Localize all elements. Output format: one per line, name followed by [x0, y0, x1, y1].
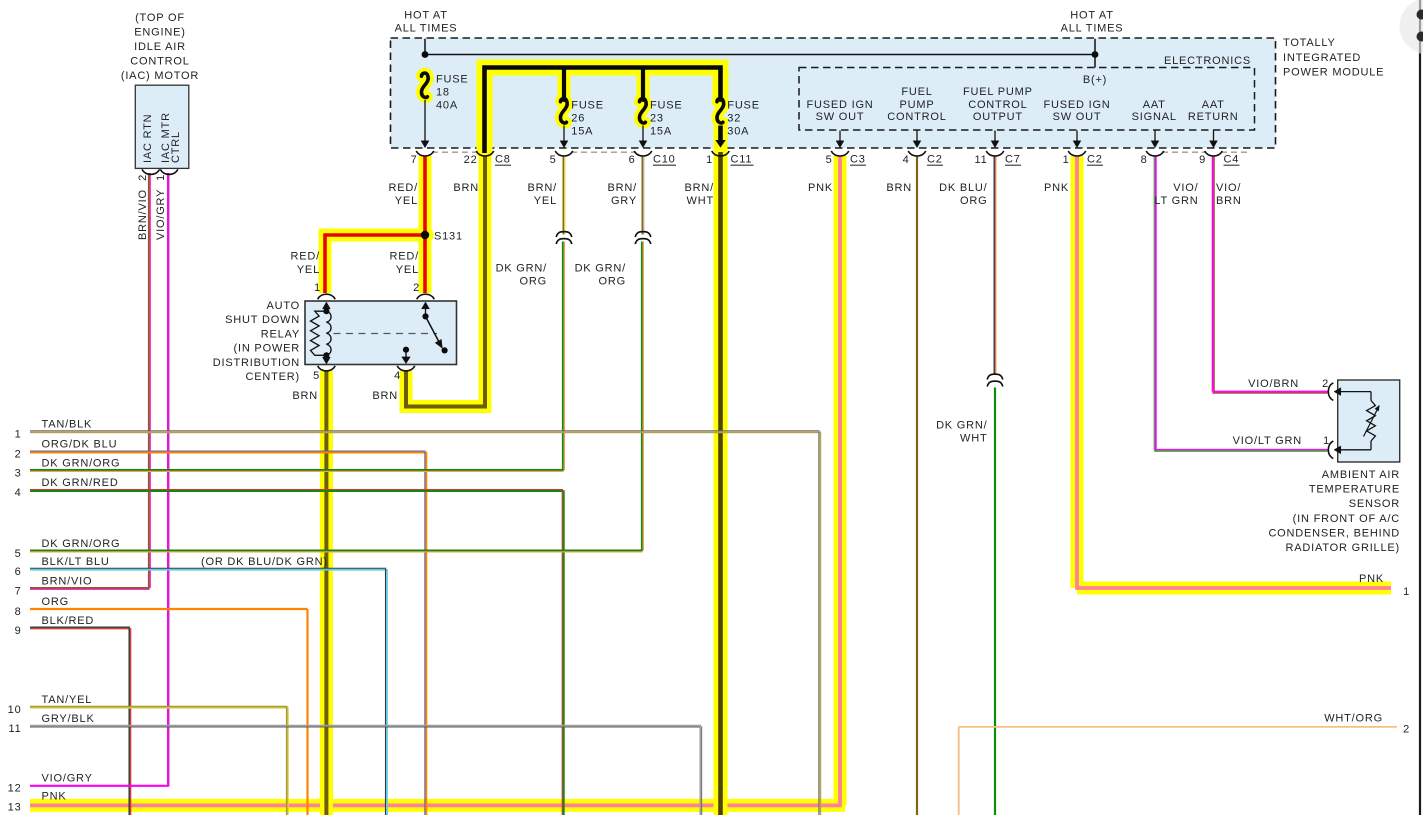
svg-text:DK GRN/ORG: DK GRN/ORG — [42, 538, 121, 550]
svg-text:ORG/DK BLU: ORG/DK BLU — [42, 439, 118, 451]
wire WHT/ORG right area — [959, 727, 1397, 815]
svg-text:1: 1 — [706, 154, 713, 166]
svg-text:AMBIENT AIR: AMBIENT AIR — [1322, 469, 1400, 481]
svg-text:RELAY: RELAY — [261, 328, 300, 340]
svg-text:CONTROL: CONTROL — [130, 56, 189, 68]
svg-text:TEMPERATURE: TEMPERATURE — [1309, 484, 1400, 496]
junction — [422, 51, 429, 58]
svg-text:ORG: ORG — [42, 596, 69, 608]
relay switch blade — [426, 316, 440, 343]
wire BRN/YEL fuse26 to break — [562, 156, 564, 235]
IAC pin1 arc — [160, 169, 178, 174]
svg-text:FUSE: FUSE — [650, 99, 683, 111]
svg-text:SENSOR: SENSOR — [1349, 498, 1400, 510]
wire VIO/LT GRN pin8 to AAT pin1 — [1153, 156, 1155, 450]
svg-text:7: 7 — [411, 154, 418, 166]
svg-text:OUTPUT: OUTPUT — [973, 111, 1023, 123]
svg-text:BRN: BRN — [292, 390, 318, 402]
IAC pin2 arc — [142, 169, 160, 174]
splice S131 — [421, 231, 429, 239]
svg-text:18: 18 — [436, 87, 450, 99]
svg-text:TAN/BLK: TAN/BLK — [42, 418, 93, 430]
wire row 7 BRN/VIO — [30, 587, 150, 589]
svg-text:1: 1 — [1403, 586, 1410, 598]
svg-text:1: 1 — [155, 174, 167, 181]
svg-text:INTEGRATED: INTEGRATED — [1283, 52, 1361, 64]
svg-text:C10: C10 — [653, 154, 676, 166]
svg-text:CONDENSER, BEHIND: CONDENSER, BEHIND — [1268, 527, 1400, 539]
svg-text:SHUT DOWN: SHUT DOWN — [225, 314, 300, 326]
svg-text:VIO/: VIO/ — [1173, 182, 1198, 194]
svg-text:VIO/GRY: VIO/GRY — [42, 773, 93, 785]
fuse F26 15A — [560, 99, 567, 123]
svg-text:VIO/: VIO/ — [1216, 182, 1241, 194]
svg-text:9: 9 — [15, 625, 22, 637]
svg-text:5: 5 — [313, 370, 320, 382]
svg-text:YEL: YEL — [395, 195, 418, 207]
svg-text:BRN: BRN — [372, 390, 398, 402]
svg-text:2: 2 — [15, 449, 22, 461]
svg-text:(IAC) MOTOR: (IAC) MOTOR — [121, 70, 199, 82]
svg-text:FUSED IGN: FUSED IGN — [806, 99, 873, 111]
svg-text:VIO/LT GRN: VIO/LT GRN — [1233, 435, 1302, 447]
electronics output arrow — [839, 131, 841, 145]
svg-text:LT GRN: LT GRN — [1154, 195, 1198, 207]
svg-text:11: 11 — [974, 154, 987, 166]
svg-text:ORG: ORG — [520, 276, 547, 288]
svg-text:TOTALLY: TOTALLY — [1283, 37, 1336, 49]
svg-text:PNK: PNK — [1359, 573, 1384, 585]
svg-text:BRN/VIO: BRN/VIO — [137, 189, 149, 240]
svg-text:RADIATOR GRILLE): RADIATOR GRILLE) — [1286, 542, 1400, 554]
svg-text:FUSE: FUSE — [436, 73, 469, 85]
svg-text:8: 8 — [15, 606, 22, 618]
svg-text:40A: 40A — [436, 100, 458, 112]
svg-text:HOT AT: HOT AT — [404, 10, 448, 22]
wire BRN/GRY fuse23 to break — [641, 156, 643, 235]
svg-text:AAT: AAT — [1202, 99, 1225, 111]
wire DK GRN/ORG break down to row3 — [562, 242, 564, 471]
pin 22 arc — [476, 151, 494, 156]
svg-text:FUEL: FUEL — [901, 86, 932, 98]
wire row 1 TAN/BLK — [30, 430, 820, 432]
electronics output arrow — [1154, 131, 1156, 145]
relay coil resistor zigzag — [311, 311, 327, 355]
wire BRN relay pin5 over row13 — [320, 790, 333, 815]
fuse F23 15A — [639, 99, 646, 123]
svg-text:8: 8 — [1141, 154, 1148, 166]
wire VIO/GRY IAC pin1 down to row12 — [167, 173, 169, 786]
svg-text:C4: C4 — [1224, 154, 1240, 166]
svg-text:10: 10 — [8, 704, 22, 716]
svg-text:DK GRN/: DK GRN/ — [936, 420, 988, 432]
svg-text:4: 4 — [394, 370, 401, 382]
svg-text:ALL TIMES: ALL TIMES — [395, 23, 458, 35]
svg-text:YEL: YEL — [534, 195, 557, 207]
relay coil bottom arrow — [325, 355, 327, 360]
svg-text:CONTROL: CONTROL — [968, 99, 1027, 111]
page right border — [1419, 0, 1421, 815]
svg-text:GRY/BLK: GRY/BLK — [42, 713, 95, 725]
svg-text:FUSE: FUSE — [727, 99, 760, 111]
svg-text:HOT AT: HOT AT — [1070, 10, 1114, 22]
pin 6 arc — [634, 151, 652, 156]
svg-text:DK GRN/: DK GRN/ — [575, 263, 627, 275]
pin 5 arc — [555, 151, 573, 156]
svg-text:DK GRN/RED: DK GRN/RED — [42, 477, 119, 489]
fuse23 output arrow — [642, 126, 644, 145]
svg-text:RED/: RED/ — [291, 251, 321, 263]
svg-text:FUEL PUMP: FUEL PUMP — [963, 86, 1033, 98]
svg-text:C8: C8 — [495, 154, 511, 166]
wire row 2 ORG/DK BLU — [30, 450, 426, 452]
svg-text:PNK: PNK — [808, 182, 833, 194]
relay coil top arrow — [325, 306, 327, 312]
pin 1 arc — [1068, 151, 1086, 156]
svg-text:1: 1 — [1063, 154, 1070, 166]
electronics output arrow — [994, 131, 996, 145]
pin 1 arc — [712, 151, 730, 156]
svg-text:30A: 30A — [727, 126, 749, 138]
pin 9 arc — [1205, 151, 1223, 156]
svg-text:PNK: PNK — [1044, 182, 1069, 194]
svg-text:BRN: BRN — [1216, 195, 1242, 207]
svg-text:WHT/ORG: WHT/ORG — [1324, 713, 1383, 725]
svg-text:ORG: ORG — [599, 276, 626, 288]
svg-text:BLK/LT BLU: BLK/LT BLU — [42, 556, 110, 568]
fuse26 output arrow — [563, 126, 565, 145]
svg-text:ELECTRONICS: ELECTRONICS — [1164, 55, 1251, 67]
relay contact — [442, 347, 448, 353]
svg-text:GRY: GRY — [611, 195, 637, 207]
svg-text:C7: C7 — [1005, 154, 1021, 166]
svg-text:3: 3 — [15, 468, 22, 480]
svg-text:BRN/: BRN/ — [528, 182, 558, 194]
svg-text:15A: 15A — [571, 126, 593, 138]
wire row 3 DK GRN/ORG — [30, 469, 564, 471]
svg-text:2: 2 — [137, 174, 149, 181]
AAT pin1 arc — [1328, 441, 1333, 459]
svg-text:AAT: AAT — [1143, 99, 1166, 111]
svg-text:POWER MODULE: POWER MODULE — [1283, 67, 1384, 79]
AAT thermistor — [1370, 392, 1372, 401]
fuse32 output thick — [718, 126, 723, 141]
svg-text:DK BLU/: DK BLU/ — [939, 182, 988, 194]
IAC motor box — [135, 85, 189, 168]
wire highlight halos — [485, 68, 721, 157]
thick fused bus — [485, 68, 721, 154]
wire BRN/VIO IAC pin2 down to row7 — [148, 173, 150, 588]
wire DK GRN/ORG break down to row5 — [641, 242, 643, 551]
svg-text:(IN POWER: (IN POWER — [234, 343, 300, 355]
wire BRN relay pin5 down — [324, 371, 328, 815]
junction B+ — [1092, 51, 1099, 58]
svg-text:BRN: BRN — [886, 182, 912, 194]
svg-text:C2: C2 — [1087, 154, 1103, 166]
wire row 10 TAN/YEL — [30, 706, 288, 708]
connector C10 group dashed — [571, 151, 636, 153]
svg-text:WHT: WHT — [687, 195, 714, 207]
svg-text:5: 5 — [15, 548, 22, 560]
relay pin2 arc — [417, 294, 435, 299]
wire BRN/WHT over row13 — [714, 790, 728, 815]
svg-text:IDLE AIR: IDLE AIR — [134, 41, 186, 53]
svg-text:4: 4 — [903, 154, 910, 166]
svg-text:VIO/BRN: VIO/BRN — [1248, 378, 1299, 390]
svg-text:FUSED IGN: FUSED IGN — [1043, 99, 1110, 111]
svg-text:RED/: RED/ — [390, 251, 420, 263]
svg-text:RED/: RED/ — [389, 182, 419, 194]
svg-text:PUMP: PUMP — [900, 99, 935, 111]
wire row 6 BLK/LT BLU — [30, 567, 386, 569]
ambient air temperature sensor box — [1338, 380, 1400, 462]
svg-text:RETURN: RETURN — [1188, 111, 1239, 123]
wire row 11 GRY/BLK — [30, 725, 701, 727]
fuse F32 30A — [717, 99, 724, 123]
svg-text:CTRL: CTRL — [170, 131, 182, 163]
svg-text:6: 6 — [629, 154, 636, 166]
svg-text:2: 2 — [413, 282, 420, 294]
wire row 8 ORG — [30, 608, 308, 610]
svg-text:SW OUT: SW OUT — [1053, 111, 1102, 123]
TIPM totally integrated power module box — [391, 38, 1276, 148]
svg-text:C11: C11 — [731, 154, 753, 166]
svg-text:26: 26 — [571, 113, 585, 125]
svg-text:SIGNAL: SIGNAL — [1132, 111, 1177, 123]
svg-text:CENTER): CENTER) — [246, 371, 301, 383]
wire BRN C2-4 down — [916, 156, 918, 815]
electronics output arrow — [1213, 131, 1215, 145]
svg-text:5: 5 — [550, 154, 557, 166]
svg-text:C2: C2 — [927, 154, 943, 166]
pin 7 arc — [416, 151, 434, 156]
svg-text:13: 13 — [8, 802, 22, 814]
pin 8 arc — [1146, 151, 1164, 156]
svg-text:ALL TIMES: ALL TIMES — [1061, 23, 1124, 35]
ELECTRONICS inner box — [799, 68, 1255, 131]
wire row 4 DK GRN/RED — [30, 489, 563, 491]
electronics output arrow — [1076, 131, 1078, 145]
svg-text:(TOP OF: (TOP OF — [135, 12, 185, 24]
svg-text:YEL: YEL — [297, 264, 320, 276]
svg-text:BRN/: BRN/ — [608, 182, 638, 194]
relay switch pivot — [422, 313, 428, 319]
svg-text:1: 1 — [314, 282, 321, 294]
relay pin5 arc — [318, 366, 336, 371]
svg-text:2: 2 — [1403, 724, 1410, 736]
svg-text:VIO/GRY: VIO/GRY — [155, 189, 167, 240]
svg-text:B(+): B(+) — [1083, 74, 1107, 86]
floating button top right — [1400, 0, 1423, 54]
fuse18 output arrow — [424, 100, 426, 144]
svg-text:BLK/RED: BLK/RED — [42, 615, 95, 627]
relay coil bottom node — [323, 352, 329, 358]
wire VIO/BRN pin9-C4 to AAT pin2 — [1212, 156, 1214, 392]
svg-text:DK GRN/ORG: DK GRN/ORG — [42, 458, 121, 470]
svg-text:11: 11 — [8, 723, 21, 735]
pin 4 arc — [908, 151, 926, 156]
svg-text:6: 6 — [15, 566, 22, 578]
wire DK GRN/WHT break down — [994, 388, 996, 816]
svg-text:BRN/VIO: BRN/VIO — [42, 576, 93, 588]
svg-text:FUSE: FUSE — [571, 99, 604, 111]
svg-text:S131: S131 — [434, 231, 463, 243]
fuse F18 40A — [421, 73, 428, 97]
wire BRN C8-22 to relay pin4 — [406, 156, 485, 407]
svg-text:ORG: ORG — [960, 195, 987, 207]
relay dashed actuator line — [334, 333, 438, 335]
svg-text:5: 5 — [826, 154, 833, 166]
auto shut down relay box — [305, 301, 457, 365]
power bus hot at all times — [424, 39, 426, 55]
relay pin4 arc — [397, 366, 415, 371]
svg-text:9: 9 — [1199, 154, 1206, 166]
svg-text:32: 32 — [727, 113, 741, 125]
wire DK BLU/ORG C7-11 to break — [993, 156, 995, 374]
break in DK BLU/ORG wire — [987, 374, 1003, 379]
wire PNK C2-1 down and right — [1075, 156, 1391, 588]
relay pin1 arc — [318, 294, 336, 299]
wire BRN/WHT C11-1 down — [718, 152, 723, 815]
wire PNK C3-5 down to row13 — [30, 156, 842, 805]
svg-text:1: 1 — [15, 428, 22, 440]
svg-text:TAN/YEL: TAN/YEL — [42, 694, 93, 706]
svg-text:DK GRN/: DK GRN/ — [496, 263, 548, 275]
svg-text:BRN: BRN — [453, 182, 479, 194]
relay switch arrow — [425, 306, 427, 317]
relay pin4 node — [403, 347, 409, 353]
svg-text:4: 4 — [15, 487, 22, 499]
connector C8 group dashed — [432, 151, 478, 153]
svg-text:SW OUT: SW OUT — [816, 111, 865, 123]
AAT pin2 arc — [1328, 383, 1333, 401]
AAT pin1 arrow — [1338, 449, 1372, 451]
svg-text:C3: C3 — [850, 154, 866, 166]
connector C4 group dashed — [1162, 151, 1206, 153]
svg-text:1: 1 — [1323, 435, 1330, 447]
svg-text:IAC RTN: IAC RTN — [142, 114, 154, 163]
svg-text:BRN/: BRN/ — [685, 182, 715, 194]
break in BRN/GRY wire — [635, 232, 651, 237]
svg-text:22: 22 — [464, 154, 478, 166]
relay coil winding — [326, 311, 331, 355]
svg-text:(IN FRONT OF A/C: (IN FRONT OF A/C — [1293, 513, 1400, 525]
svg-text:WHT: WHT — [960, 433, 987, 445]
svg-text:YEL: YEL — [396, 264, 419, 276]
wire row 5 DK GRN/ORG — [30, 550, 643, 552]
svg-text:AUTO: AUTO — [266, 300, 300, 312]
svg-text:ENGINE): ENGINE) — [134, 27, 185, 39]
svg-text:(OR DK BLU/DK GRN): (OR DK BLU/DK GRN) — [201, 556, 328, 568]
svg-text:2: 2 — [1322, 378, 1329, 390]
svg-text:CONTROL: CONTROL — [887, 111, 946, 123]
pin 5 arc — [831, 151, 849, 156]
electronics output arrow — [916, 131, 918, 145]
svg-text:DISTRIBUTION: DISTRIBUTION — [213, 357, 300, 369]
pin 11 arc — [986, 151, 1004, 156]
svg-text:23: 23 — [650, 113, 664, 125]
wire row 12 VIO/GRY — [30, 785, 169, 787]
relay coil top node — [323, 308, 329, 314]
AAT pin2 arrow — [1338, 391, 1372, 393]
svg-text:7: 7 — [15, 586, 22, 598]
svg-text:15A: 15A — [650, 126, 672, 138]
break in BRN/YEL wire — [556, 232, 572, 237]
svg-text:12: 12 — [8, 783, 22, 795]
wire RED/YEL from pin7 to S131 to relay pins 1,2 — [423, 156, 427, 235]
wire row 9 BLK/RED — [30, 626, 130, 628]
svg-text:PNK: PNK — [42, 791, 67, 803]
